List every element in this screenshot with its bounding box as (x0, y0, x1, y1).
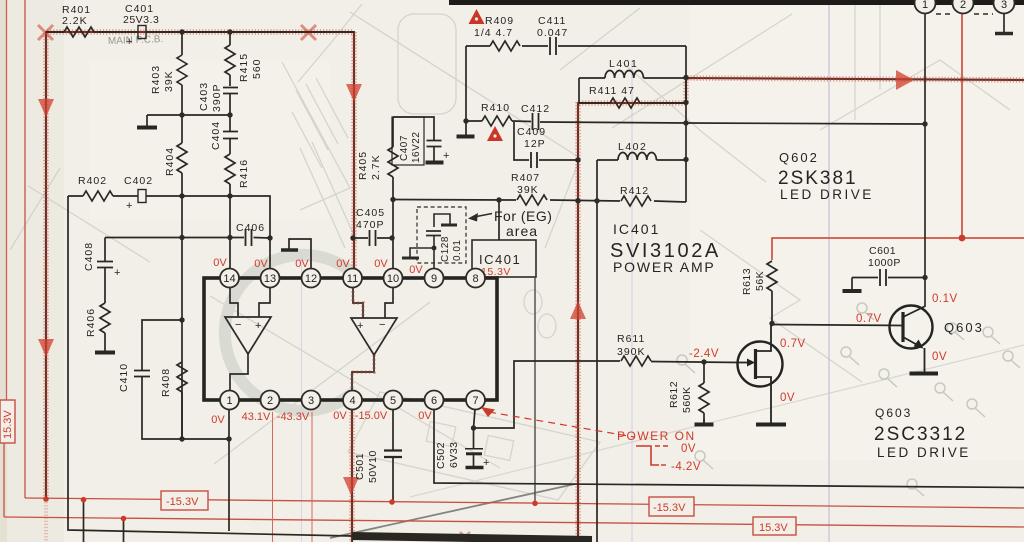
svg-text:-15.3V: -15.3V (166, 496, 199, 508)
capacitor C408 (97, 262, 113, 268)
wire pin5 to C501 (392, 409, 394, 450)
wire column x466 (465, 46, 467, 135)
red border line left inner (24, 0, 26, 498)
resistor R404 (177, 143, 187, 173)
wire R405 column x393 (392, 117, 394, 269)
wire R409 top row y46 (466, 45, 686, 47)
wire stub below rail x123 (123, 519, 125, 542)
svg-text:+: + (126, 200, 132, 212)
inductor L402 (618, 153, 656, 161)
lavender fold line (828, 0, 830, 542)
svg-text:IC401: IC401 (479, 252, 521, 267)
ground C502 (466, 466, 484, 470)
svg-text:2: 2 (960, 0, 966, 11)
svg-text:10: 10 (387, 273, 399, 285)
wire stub to IC401 label box (498, 200, 500, 240)
thick clipped bottom bar (352, 536, 592, 540)
junction dots black (179, 29, 927, 441)
IC401 label box (472, 240, 536, 277)
svg-text:5: 5 (390, 395, 396, 407)
svg-text:POWER ON: POWER ON (617, 429, 696, 443)
highlighted trace: pin4 column (maroon) (351, 409, 353, 542)
svg-text:Q603: Q603 (944, 320, 984, 335)
svg-text:12P: 12P (524, 138, 546, 150)
svg-text:R403: R403 (150, 65, 162, 94)
svg-text:0V: 0V (409, 264, 423, 276)
svg-text:R611: R611 (617, 333, 645, 345)
terminal 2 (953, 0, 974, 14)
highlighted trace: top feedback wire (maroon) (46, 32, 354, 499)
svg-text:−: − (235, 319, 241, 331)
svg-text:2SK381: 2SK381 (778, 168, 858, 189)
svg-text:-15.3V: -15.3V (653, 502, 686, 514)
wire column x182 (181, 32, 183, 439)
svg-text:1000P: 1000P (868, 257, 901, 269)
wire Q603 base row (772, 325, 902, 326)
svg-text:0V: 0V (254, 258, 268, 270)
lavender fold line 2 (631, 60, 633, 542)
wire pin6 run to right edge (434, 409, 1024, 488)
svg-text:0V: 0V (681, 443, 696, 455)
resistor R612 (699, 383, 709, 413)
junction dots red (43, 235, 965, 522)
wire R612 column (703, 362, 705, 423)
wire row y122 R410 C412 (466, 121, 925, 124)
red dashed pointer to pin7 (489, 412, 634, 437)
wire pin13 to op-amp (259, 287, 270, 317)
wire leader from IC401 box to rail (534, 277, 536, 503)
wire column x686 (685, 46, 687, 202)
svg-text:+: + (255, 320, 261, 332)
svg-text:R405: R405 (357, 151, 369, 180)
ghost dark chassis edge (330, 484, 575, 538)
ground hook pin12 (289, 239, 311, 269)
capacitor C601 (843, 269, 926, 291)
svg-text:C405: C405 (356, 207, 385, 219)
inductor L401 (605, 71, 643, 79)
red arrow marker on left trace (38, 339, 54, 357)
red arrow marker on left trace upper (38, 99, 54, 117)
svg-text:16V22: 16V22 (411, 132, 422, 163)
svg-text:R410: R410 (481, 102, 510, 114)
op-amp U1a triangle (225, 317, 271, 354)
wire row y237 (105, 237, 270, 240)
svg-text:Q602: Q602 (779, 150, 819, 165)
wire feedback row y200 (393, 200, 686, 203)
svg-text:560: 560 (251, 58, 263, 79)
terminal 1 (915, 0, 936, 14)
svg-text:25V3.3: 25V3.3 (123, 14, 159, 26)
svg-text:-4.2V: -4.2V (671, 461, 701, 473)
svg-text:LED DRIVE: LED DRIVE (780, 187, 874, 202)
dashed box For EG area (417, 207, 466, 263)
wire L401 row (579, 77, 686, 79)
IC pin circles top row (220, 269, 485, 288)
arrow to EG box (474, 214, 492, 218)
wire C407 bottom + ground (433, 147, 435, 161)
svg-text:C406: C406 (236, 222, 265, 234)
wire column x597 (596, 160, 598, 542)
resistor R401 (64, 27, 94, 37)
wire C410 R408 top loop (142, 320, 182, 370)
svg-text:C412: C412 (521, 103, 550, 115)
svg-text:14: 14 (223, 273, 235, 285)
svg-text:3: 3 (308, 395, 314, 407)
svg-text:C410: C410 (118, 363, 130, 392)
IC401 package box (204, 278, 497, 400)
svg-text:LED DRIVE: LED DRIVE (877, 445, 971, 460)
ground below R406 (95, 351, 115, 355)
capacitor C401 (electrolytic box) (138, 26, 146, 39)
svg-text:−: − (379, 319, 385, 331)
highlighted trace: output to terminal (maroon) (579, 78, 1024, 103)
wire C405 row y238 (355, 237, 392, 239)
rail label 15.3V rotated left box (0, 400, 15, 443)
svg-text:39K: 39K (517, 184, 539, 196)
wire C501 to rail (392, 458, 394, 502)
svg-text:0V: 0V (780, 392, 795, 404)
svg-text:R407: R407 (511, 172, 540, 184)
ghost screws bottom right (677, 303, 1020, 496)
svg-text:0.7V: 0.7V (780, 338, 806, 350)
svg-text:IC401: IC401 (613, 221, 660, 237)
svg-text:1: 1 (226, 395, 232, 407)
ghost big C arc (225, 255, 356, 411)
svg-text:+: + (126, 36, 132, 48)
svg-text:C408: C408 (83, 242, 95, 271)
svg-text:R412: R412 (620, 185, 649, 197)
svg-text:0.7V: 0.7V (856, 313, 882, 325)
red supply rail -15.3V (25, 498, 1024, 508)
svg-text:0V: 0V (213, 257, 227, 269)
resistor R613 (767, 261, 902, 326)
svg-text:C407: C407 (399, 135, 410, 161)
lavender fold line 3 (301, 253, 303, 542)
svg-text:-43.3V: -43.3V (277, 411, 310, 423)
wire pin14 to op-amp (230, 287, 238, 317)
svg-text:0V: 0V (333, 410, 347, 422)
wire pin1 column (228, 409, 230, 531)
red hairline below pin2 (272, 412, 274, 542)
wire L401 R411 left node (578, 78, 580, 103)
svg-text:2: 2 (267, 395, 273, 407)
svg-text:50V10: 50V10 (367, 450, 379, 483)
svg-text:11: 11 (347, 273, 358, 285)
svg-text:8: 8 (472, 273, 478, 285)
resistor R415 (225, 45, 235, 75)
svg-text:6: 6 (431, 395, 437, 407)
highlighted trace: output column x578 (maroon) (577, 102, 579, 542)
capacitor C128 symbol (402, 214, 457, 269)
resistor R402 (83, 191, 113, 201)
highlight hatch on pin11 wire (352, 287, 374, 391)
svg-text:1/4 4.7: 1/4 4.7 (474, 27, 513, 39)
svg-text:56K: 56K (754, 271, 766, 291)
svg-text:C128: C128 (440, 236, 451, 262)
svg-text:+: + (357, 320, 363, 332)
svg-text:R613: R613 (741, 268, 753, 295)
top black bus bar (449, 0, 1024, 5)
svg-text:C409: C409 (517, 126, 546, 138)
svg-text:L402: L402 (618, 141, 647, 153)
svg-text:6V33: 6V33 (448, 441, 460, 468)
red arrow marker on output trace (896, 70, 914, 90)
capacitor C411 (550, 37, 556, 55)
capacitor C501 (384, 451, 402, 458)
rail label -15.3V left box (161, 491, 208, 510)
svg-text:C403: C403 (198, 82, 210, 111)
resistor R409 (490, 41, 520, 51)
wire pin7 node (474, 361, 621, 428)
wire pin11 to op-amp (highlighted) (353, 287, 363, 318)
resistor R406 (100, 303, 110, 333)
resistor R403 (177, 55, 187, 85)
wire stub below rail x83 (83, 501, 85, 542)
svg-text:0V: 0V (336, 258, 350, 270)
wire pin10 to op-amp (385, 287, 393, 318)
pin numbers (223, 273, 478, 407)
svg-text:390P: 390P (211, 83, 223, 112)
wire left vertical x68 (68, 196, 352, 536)
op-amp U1b triangle (351, 318, 397, 355)
svg-text:POWER AMP: POWER AMP (613, 259, 716, 275)
svg-text:R406: R406 (85, 308, 97, 337)
wire op-amp U1a out to pin1 (230, 354, 248, 391)
transistor Q603 (890, 306, 939, 374)
capacitor C502 (473, 428, 475, 448)
capacitor C407 (427, 141, 442, 147)
wire bias row y115 (147, 114, 230, 116)
wire C410 bottom (142, 377, 229, 439)
resistor R411 (610, 98, 640, 108)
svg-text:C402: C402 (124, 175, 153, 187)
wire column x230 (229, 32, 231, 268)
wire red from 15.3V label box (3, 443, 5, 517)
rail label 15.3V box (753, 517, 796, 535)
svg-text:0V: 0V (211, 414, 225, 426)
svg-text:L401: L401 (609, 58, 638, 70)
svg-text:C501: C501 (354, 453, 366, 480)
svg-text:R409: R409 (485, 15, 514, 27)
svg-text:470P: 470P (356, 219, 385, 231)
capacitor C403 (223, 88, 238, 94)
capacitor C402 (electrolytic box) (138, 190, 146, 203)
wire L402 row (597, 159, 686, 161)
svg-text:390K: 390K (617, 346, 646, 358)
resistor R408 (177, 362, 187, 392)
svg-text:-15.0V: -15.0V (355, 410, 388, 422)
svg-text:C502: C502 (435, 442, 447, 469)
svg-text:R415: R415 (238, 53, 250, 82)
capacitor C405 (370, 230, 376, 246)
svg-text:R402: R402 (78, 175, 107, 187)
svg-text:4: 4 (349, 395, 355, 407)
wire R411 row (579, 102, 686, 104)
svg-text:C404: C404 (210, 121, 222, 150)
IC pin circles bottom row (220, 391, 485, 410)
transistor Q602 (738, 323, 787, 425)
svg-text:0.01: 0.01 (452, 240, 463, 261)
svg-text:9: 9 (431, 273, 437, 285)
svg-text:0V: 0V (932, 351, 947, 363)
svg-text:For (EG): For (EG) (494, 208, 552, 224)
svg-text:7: 7 (472, 395, 478, 407)
wire C409 row y160 (514, 122, 577, 160)
svg-text:area: area (506, 223, 538, 239)
svg-text:43.1V: 43.1V (242, 411, 271, 423)
svg-text:1: 1 (922, 0, 928, 11)
svg-text:R612: R612 (668, 381, 680, 408)
resistor R412 (621, 196, 651, 206)
red sparkle at corner (38, 25, 316, 40)
capacitor C406 (246, 229, 252, 246)
svg-text:0.047: 0.047 (537, 27, 568, 39)
wire R611 to gate (651, 362, 740, 363)
svg-text:MAIN P.C.B.: MAIN P.C.B. (108, 34, 164, 47)
red line from terminal 2 (961, 13, 963, 238)
red arrow marker on x354 trace (346, 84, 362, 102)
red border line left outer (6, 0, 8, 400)
terminal 3 stub to ground (1003, 13, 1005, 33)
svg-text:15.3V: 15.3V (2, 410, 14, 439)
capacitor C409 (531, 152, 537, 168)
svg-text:C411: C411 (538, 15, 566, 27)
wire C407 top (393, 117, 434, 140)
red arrow marker on x578 trace (570, 301, 586, 319)
svg-text:2.2K: 2.2K (62, 15, 88, 27)
red supply rail 15.3V (4, 517, 1024, 527)
dashed link between terminals (936, 13, 993, 15)
warning triangle C412 (487, 126, 503, 141)
wire op-amp U1b out to pin4 (highlighted) (352, 355, 374, 391)
svg-text:39K: 39K (163, 70, 175, 92)
resistor R407 (517, 195, 547, 205)
svg-text:R404: R404 (164, 147, 176, 176)
svg-text:-2.4V: -2.4V (689, 348, 719, 360)
svg-text:2SC3312: 2SC3312 (874, 424, 967, 445)
svg-text:R411 47: R411 47 (589, 85, 635, 97)
svg-text:0V: 0V (418, 410, 432, 422)
svg-text:R408: R408 (160, 368, 172, 397)
warning triangle R409 (469, 9, 485, 24)
wire terminal1 column (924, 13, 926, 307)
svg-text:2.7K: 2.7K (370, 154, 382, 180)
resistor R416 (225, 154, 235, 184)
resistor R410 (482, 116, 512, 126)
red step waveform (636, 446, 659, 465)
capacitor C410 (134, 371, 150, 377)
label box C407 (392, 117, 424, 165)
svg-text:Q603: Q603 (875, 406, 912, 420)
svg-text:+: + (443, 150, 449, 162)
wire input row y196 (68, 196, 270, 268)
svg-text:12: 12 (305, 273, 317, 285)
svg-text:3: 3 (1001, 0, 1007, 11)
svg-text:R416: R416 (238, 159, 250, 188)
red hairline below pin3 (311, 412, 313, 542)
small red sparkle bottom (460, 532, 470, 541)
capacitor C404 (223, 132, 238, 139)
svg-text:0V: 0V (295, 258, 309, 270)
wire top rail segments (46, 31, 354, 33)
svg-text:13: 13 (264, 273, 276, 285)
svg-text:+: + (483, 457, 489, 469)
svg-text:0V: 0V (374, 258, 388, 270)
svg-text:15.3V: 15.3V (759, 522, 788, 534)
red wire to R613 / C601 node (772, 238, 1024, 260)
wire column x105 (104, 238, 106, 353)
svg-text:0.1V: 0.1V (932, 293, 958, 305)
svg-text:560K: 560K (681, 386, 693, 413)
ground at bias row (146, 115, 148, 126)
red arrow marker on pin4 trace (343, 477, 359, 495)
resistor R611 (621, 356, 651, 366)
ground below R410 node (457, 135, 475, 139)
resistor R405 (388, 147, 398, 177)
terminal 3 (994, 0, 1015, 14)
svg-text:+: + (114, 267, 120, 279)
ground R612 (695, 423, 714, 427)
rail label -15.3V right box (649, 497, 694, 516)
svg-text:C601: C601 (869, 245, 896, 257)
capacitor C412 (533, 113, 539, 130)
